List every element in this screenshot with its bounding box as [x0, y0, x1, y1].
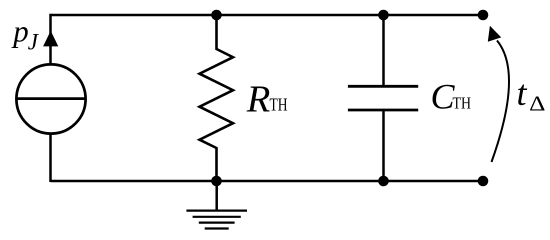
wire left branch lower	[49, 134, 52, 182]
label C_TH	[431, 77, 472, 117]
node top right terminal	[478, 10, 489, 21]
node top resistor junction	[211, 10, 222, 21]
capacitor C_TH	[348, 15, 418, 181]
current source PJ	[16, 64, 85, 133]
label t_Delta	[517, 73, 546, 116]
wire top rail	[51, 14, 484, 17]
svg-text:t: t	[517, 73, 528, 113]
resistor R_TH	[200, 15, 234, 181]
arrow current direction	[43, 31, 58, 47]
svg-text:TH: TH	[270, 95, 288, 115]
svg-text:J: J	[28, 29, 40, 54]
ground	[186, 181, 247, 229]
svg-text:TH: TH	[453, 94, 472, 113]
svg-text:p: p	[11, 14, 29, 49]
wire left branch upper	[49, 14, 52, 64]
label p_J	[11, 14, 40, 55]
node top capacitor junction	[378, 10, 389, 21]
arrow t_delta curved	[488, 26, 509, 162]
node bottom capacitor junction	[378, 176, 389, 187]
svg-text:Δ: Δ	[529, 92, 546, 116]
label R_TH	[246, 79, 288, 121]
svg-text:R: R	[246, 79, 271, 121]
node bottom resistor junction	[211, 176, 222, 187]
wire bottom rail	[51, 180, 484, 183]
node bottom right terminal	[478, 176, 489, 187]
